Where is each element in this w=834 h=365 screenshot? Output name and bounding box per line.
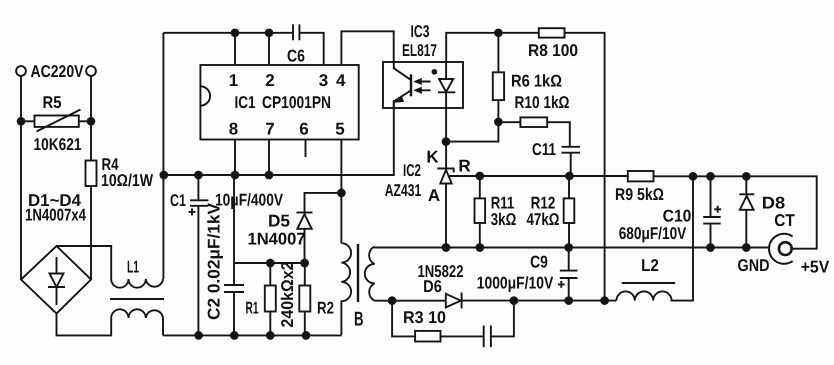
label 680uF 10V <box>619 224 687 243</box>
label 1N5822 <box>418 262 464 281</box>
svg-text:D5: D5 <box>268 212 290 231</box>
label 10K621 <box>34 135 82 154</box>
svg-text:R2: R2 <box>317 299 334 318</box>
node: L2 to +5V rail <box>690 173 697 180</box>
svg-text:IC1: IC1 <box>235 93 256 112</box>
svg-text:K: K <box>426 148 439 167</box>
resistor R9 <box>628 171 654 181</box>
wire: GND bus <box>375 247 770 249</box>
node: R5 right junction <box>88 118 95 125</box>
svg-text:C6: C6 <box>287 47 305 66</box>
label R6 1k <box>511 72 562 91</box>
svg-text:8: 8 <box>229 120 238 139</box>
label 3k <box>491 210 517 229</box>
label R2 <box>317 299 334 318</box>
label D6 <box>423 277 442 296</box>
label pin7 <box>265 120 274 139</box>
svg-text:10μF/400V: 10μF/400V <box>215 191 284 210</box>
choke L1 winding bottom <box>111 309 163 335</box>
label C6 <box>287 47 305 66</box>
node: pin1 riser <box>232 29 239 36</box>
wire: R8 to feedback drop <box>565 33 605 301</box>
wire: LED cathode to AZ431 <box>445 92 447 168</box>
wire: pin8 lead <box>234 140 236 176</box>
wire: bottom primary bus <box>163 334 341 336</box>
optocoupler IC3 light arrows <box>414 78 431 93</box>
wire: right AC rail upper <box>90 76 92 161</box>
svg-text:L1: L1 <box>127 258 139 277</box>
label IC3 <box>411 22 430 41</box>
diode D5 <box>297 193 342 263</box>
wire: C6 to pin3 <box>299 33 323 65</box>
svg-text:IC3: IC3 <box>411 22 430 41</box>
svg-text:10K621: 10K621 <box>34 135 82 154</box>
svg-text:240kΩx2: 240kΩx2 <box>278 262 297 328</box>
wire: pin2 lead <box>268 33 270 65</box>
label L2 <box>641 256 659 275</box>
svg-text:CP1001PN: CP1001PN <box>262 93 331 112</box>
svg-text:AC220V: AC220V <box>31 62 85 81</box>
label pin3 <box>319 71 328 90</box>
inductor L2 core bar <box>622 282 675 284</box>
svg-text:R6 1kΩ: R6 1kΩ <box>511 72 562 91</box>
wire: bridge bottom to L1 <box>57 314 112 336</box>
label pin1 <box>229 71 238 90</box>
node: R11 bottom <box>476 244 483 251</box>
node: R1 top <box>267 260 274 267</box>
wire: right AC rail lower <box>90 186 92 280</box>
wire: opto emitter to HV bus <box>393 101 395 109</box>
svg-text:1N4007x4: 1N4007x4 <box>25 206 86 225</box>
label D1-D4 <box>28 191 82 210</box>
label pin4 <box>336 71 346 90</box>
label D8 <box>762 194 785 213</box>
node: feedback drop bottom <box>601 297 608 304</box>
label K <box>426 148 439 167</box>
svg-text:CT: CT <box>774 211 795 230</box>
svg-text:R1: R1 <box>246 299 259 318</box>
wire: pin7 lead <box>268 140 270 176</box>
label pin2 <box>265 71 274 90</box>
label R5 <box>43 93 62 112</box>
svg-text:+5V: +5V <box>801 258 830 277</box>
capacitor snubber <box>484 301 514 348</box>
label C11 <box>532 140 556 159</box>
svg-text:10Ω/1W: 10Ω/1W <box>101 171 154 190</box>
resistor R8 <box>539 28 565 37</box>
transformer B secondary <box>365 247 375 301</box>
capacitor C9 <box>558 248 578 301</box>
label R4 <box>102 155 119 174</box>
svg-text:R10 1kΩ: R10 1kΩ <box>515 93 570 112</box>
label IC1 <box>235 93 256 112</box>
node: R2 bottom <box>303 332 310 339</box>
label AC220V <box>31 62 85 81</box>
resistor R6 <box>493 33 504 122</box>
wire: pin1 lead <box>234 33 236 65</box>
label A <box>428 186 440 205</box>
node: pin2 riser <box>266 29 273 36</box>
terminal AC N <box>86 66 96 76</box>
node: D8 top <box>743 173 750 180</box>
node: R1 bottom <box>267 332 274 339</box>
label L1 <box>127 258 139 277</box>
resistor R1 <box>265 263 276 335</box>
svg-text:AZ431: AZ431 <box>385 181 422 200</box>
label 1000uF 10V <box>477 274 554 293</box>
node: pin8 <box>232 172 239 179</box>
capacitor C11 <box>562 147 581 176</box>
svg-text:R5: R5 <box>43 93 62 112</box>
label 10uF 400V <box>215 191 284 210</box>
node: R12 bottom / C9 top <box>565 244 572 251</box>
terminal AC L <box>16 66 26 76</box>
node: C1 bottom <box>195 332 202 339</box>
diode D8 <box>739 176 754 247</box>
label 1N4007 <box>248 230 306 249</box>
wire: D6 cathode to L2 <box>462 300 617 302</box>
node: R2 top / D5 anode <box>301 260 308 267</box>
resistor R2 <box>299 263 310 335</box>
wire: R10 node down to K line <box>446 122 498 142</box>
wire: pin5 lead to transformer <box>340 140 342 244</box>
svg-text:R: R <box>458 157 470 176</box>
capacitor C10 <box>703 176 721 247</box>
svg-text:IC2: IC2 <box>403 161 421 180</box>
svg-text:C10: C10 <box>663 207 692 226</box>
label R10 1k <box>515 93 570 112</box>
node: D8 bottom <box>743 244 750 251</box>
svg-text:7: 7 <box>265 120 274 139</box>
resistor R3 <box>392 301 484 342</box>
label R12 <box>531 194 556 213</box>
svg-text:C9: C9 <box>530 253 548 272</box>
node: C1 top <box>195 172 202 179</box>
optocoupler IC3 phototransistor <box>394 62 411 108</box>
wire: top bus to C6 <box>163 32 293 34</box>
svg-text:C1: C1 <box>170 191 186 210</box>
label C1 <box>170 191 186 210</box>
optocoupler IC3 pin1 mark <box>433 70 437 74</box>
resistor R10 <box>498 117 569 146</box>
optocoupler IC3 LED <box>438 62 455 92</box>
capacitor C6 <box>293 24 299 40</box>
choke L1 winding top <box>111 279 163 288</box>
label 1N4007x4 <box>25 206 86 225</box>
node: C2 bottom <box>231 332 238 339</box>
svg-text:1N4007: 1N4007 <box>248 230 306 249</box>
svg-text:R8 100: R8 100 <box>528 41 578 60</box>
svg-text:D6: D6 <box>423 277 442 296</box>
label 10ohm 1W <box>101 171 154 190</box>
svg-text:2: 2 <box>265 71 274 90</box>
node: bus left <box>160 172 167 179</box>
optocoupler IC3 EL817 body <box>383 62 463 108</box>
resistor R4 <box>86 161 97 187</box>
svg-text:6: 6 <box>299 120 308 139</box>
svg-text:4: 4 <box>336 71 346 90</box>
capacitor C1 <box>189 175 209 335</box>
resistor R11 <box>475 176 486 248</box>
node: R6 top <box>495 29 502 36</box>
svg-text:47kΩ: 47kΩ <box>527 210 560 229</box>
label R9 5k <box>615 185 664 204</box>
transformer B core <box>357 244 359 302</box>
label CT <box>774 211 795 230</box>
svg-text:C11: C11 <box>532 140 556 159</box>
node: C10 top <box>707 173 714 180</box>
inductor L2 <box>616 176 693 300</box>
bridge rectifier D1-D4 <box>21 246 91 314</box>
svg-text:R9 5kΩ: R9 5kΩ <box>615 185 664 204</box>
label CP1001PN <box>262 93 331 112</box>
node: secondary bottom / snubber left <box>389 297 396 304</box>
label EL817 <box>402 41 437 60</box>
svg-text:1: 1 <box>229 71 238 90</box>
wire: LED anode to R6 bus <box>446 33 539 62</box>
node: C9 bottom <box>565 297 572 304</box>
wire: L1 riser to top bus <box>162 33 164 279</box>
label 47k <box>527 210 560 229</box>
wire: left AC rail <box>20 76 22 280</box>
wire: bridge top to L1 <box>57 246 112 279</box>
label C9 <box>530 253 548 272</box>
label pin5 <box>335 120 344 139</box>
capacitor C2 <box>224 175 244 335</box>
svg-text:EL817: EL817 <box>402 41 437 60</box>
label pin8 <box>229 120 238 139</box>
wire: AZ431 ref to R9 line <box>449 175 628 177</box>
label R8 100 <box>528 41 578 60</box>
label C10 <box>663 207 692 226</box>
svg-text:1000μF/10V: 1000μF/10V <box>477 274 554 293</box>
wire: C2 to R1 R2 tops <box>234 262 305 264</box>
label IC2 <box>403 161 421 180</box>
shunt regulator IC2 AZ431 <box>437 169 453 248</box>
label pin6 <box>299 120 308 139</box>
choke L1 core <box>110 298 164 300</box>
wire: pin6 stub <box>305 140 307 158</box>
varistor R5 <box>21 110 91 132</box>
connector CT center pin <box>779 242 792 255</box>
op IC1 CP1001PN body <box>200 65 358 140</box>
label R3 10 <box>403 308 446 327</box>
label GND <box>738 256 770 275</box>
svg-text:R3 10: R3 10 <box>403 308 446 327</box>
label +5V <box>801 258 830 277</box>
wire: HV+ bus <box>163 108 393 175</box>
label R <box>458 157 470 176</box>
svg-text:5: 5 <box>335 120 344 139</box>
node: D5 to pin5 <box>338 190 345 197</box>
label AZ431 <box>385 181 422 200</box>
transformer B primary <box>341 243 351 335</box>
svg-text:A: A <box>428 186 440 205</box>
label R11 <box>491 194 515 213</box>
label B <box>354 309 364 331</box>
label C2 value rotated <box>205 202 224 320</box>
wire: secondary to D6 <box>375 300 446 302</box>
label R1 <box>246 299 259 318</box>
wire: pin4 to opto collector <box>341 31 393 65</box>
svg-text:GND: GND <box>738 256 770 275</box>
label D5 <box>268 212 290 231</box>
diode D6 <box>446 293 462 309</box>
node: C11 bottom / R12 top <box>566 173 573 180</box>
label 240k x2 rotated <box>278 262 297 328</box>
svg-text:680μF/10V: 680μF/10V <box>619 224 687 243</box>
svg-text:C2 0.02μF/1kV: C2 0.02μF/1kV <box>205 202 224 320</box>
svg-text:L2: L2 <box>641 256 659 275</box>
svg-text:B: B <box>354 309 364 331</box>
resistor R12 <box>564 176 575 248</box>
svg-text:D8: D8 <box>762 194 785 213</box>
node: R5 left junction <box>18 118 25 125</box>
node: snubber right <box>511 297 518 304</box>
node: R6 bottom / R10 left <box>495 119 502 126</box>
node: AZ431 anode on GND bus <box>443 244 450 251</box>
connector CT outer ring <box>769 234 793 264</box>
svg-text:3: 3 <box>319 71 328 90</box>
node: K line junction <box>443 138 450 145</box>
node: AZ431 ref / R11 top <box>476 173 483 180</box>
node: pin7 <box>266 172 273 179</box>
svg-text:3kΩ: 3kΩ <box>491 210 517 229</box>
node: C10 bottom <box>707 244 714 251</box>
wire: +5V rail <box>654 176 817 248</box>
